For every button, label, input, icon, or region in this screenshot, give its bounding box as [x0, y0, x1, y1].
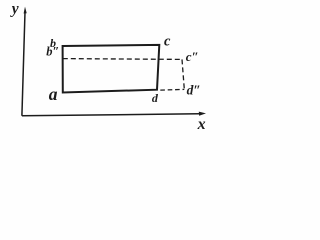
solid rectangle abcd	[63, 45, 160, 93]
svg-text:b″: b″	[46, 45, 59, 59]
svg-text:a: a	[49, 84, 58, 104]
y-axis	[22, 7, 27, 116]
dashed bottom edge d-d''	[158, 88, 185, 91]
svg-text:d: d	[152, 91, 159, 105]
svg-text:c″: c″	[186, 49, 199, 64]
svg-text:x: x	[197, 116, 206, 133]
dashed top edge b''-c''	[63, 58, 182, 61]
x-axis	[22, 112, 206, 116]
svg-text:c: c	[164, 34, 171, 50]
svg-text:y: y	[10, 1, 19, 18]
svg-text:d″: d″	[187, 82, 201, 97]
dashed right edge c''-d''	[182, 59, 184, 89]
